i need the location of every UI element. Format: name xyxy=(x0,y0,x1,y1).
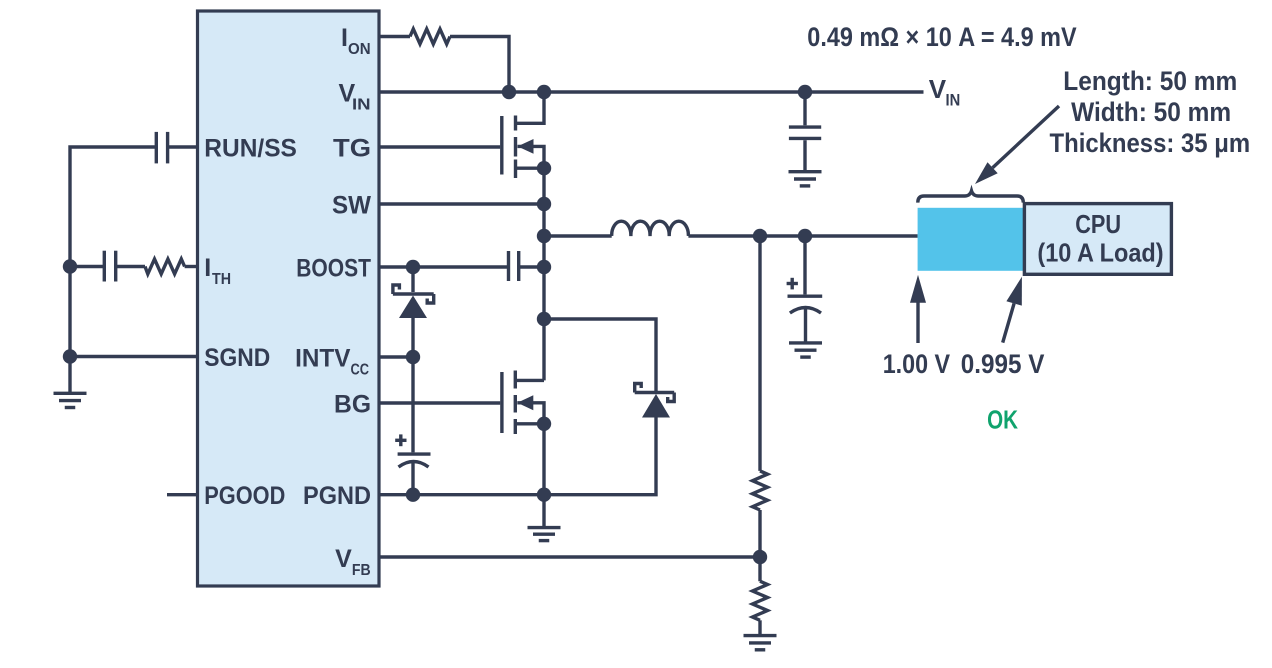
svg-text:V: V xyxy=(929,74,947,104)
svg-text:BOOST: BOOST xyxy=(296,255,371,283)
svg-text:(10 A Load): (10 A Load) xyxy=(1037,237,1163,267)
svg-text:0.995 V: 0.995 V xyxy=(961,349,1045,379)
svg-text:I: I xyxy=(341,24,348,52)
svg-text:Thickness: 35 μm: Thickness: 35 μm xyxy=(1050,128,1251,158)
svg-text:Width: 50 mm: Width: 50 mm xyxy=(1071,97,1231,127)
svg-text:SGND: SGND xyxy=(204,344,270,372)
svg-text:V: V xyxy=(335,545,352,573)
svg-text:PGOOD: PGOOD xyxy=(204,482,285,510)
svg-text:OK: OK xyxy=(987,404,1018,434)
svg-text:TG: TG xyxy=(333,135,371,163)
svg-text:BG: BG xyxy=(334,391,371,419)
svg-text:Length: 50 mm: Length: 50 mm xyxy=(1063,66,1237,96)
svg-text:INTV: INTV xyxy=(295,345,351,373)
svg-text:1.00 V: 1.00 V xyxy=(883,349,950,379)
svg-text:SW: SW xyxy=(332,192,371,220)
svg-text:IN: IN xyxy=(352,96,371,113)
svg-text:ON: ON xyxy=(348,41,371,58)
svg-text:IN: IN xyxy=(946,91,961,110)
svg-text:CPU: CPU xyxy=(1075,209,1121,239)
svg-text:TH: TH xyxy=(212,271,231,288)
svg-text:PGND: PGND xyxy=(303,482,371,510)
svg-text:0.49 mΩ × 10 A = 4.9 mV: 0.49 mΩ × 10 A = 4.9 mV xyxy=(807,22,1076,52)
svg-text:FB: FB xyxy=(352,562,371,579)
svg-text:CC: CC xyxy=(351,361,370,378)
svg-text:RUN/SS: RUN/SS xyxy=(204,135,297,163)
svg-text:I: I xyxy=(204,254,211,282)
